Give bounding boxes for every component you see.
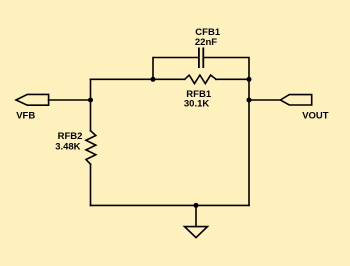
svg-text:3.48K: 3.48K (55, 142, 80, 153)
svg-text:RFB2: RFB2 (58, 131, 83, 142)
svg-text:22nF: 22nF (195, 37, 217, 48)
svg-text:30.1K: 30.1K (184, 98, 209, 109)
svg-text:VOUT: VOUT (302, 111, 329, 122)
svg-text:VFB: VFB (16, 110, 35, 121)
